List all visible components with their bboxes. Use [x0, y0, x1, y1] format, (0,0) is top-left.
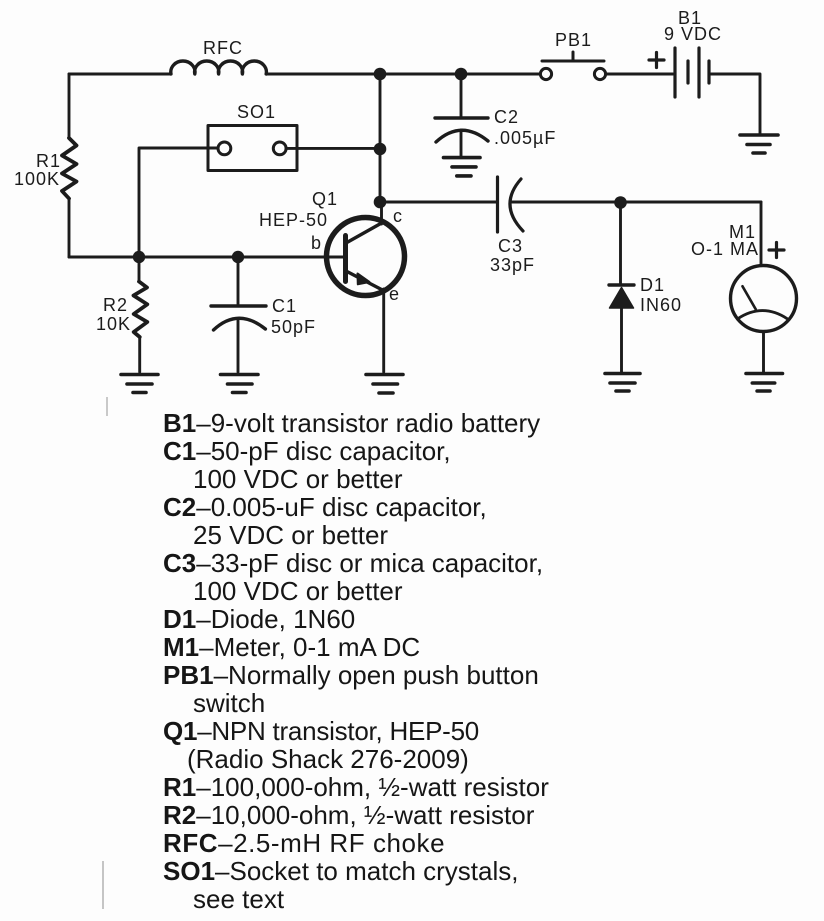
capacitor C1 lead — [237, 257, 240, 304]
capacitor C2 curved plate — [436, 130, 488, 142]
svg-text:100 VDC or better: 100 VDC or better — [193, 464, 403, 494]
wire emitter stub — [382, 289, 385, 372]
wire output rail right — [512, 201, 761, 204]
node bus collector — [374, 196, 387, 209]
transistor Q1 base bar — [343, 236, 348, 282]
socket SO1 pin right — [273, 142, 286, 155]
node D1 junction — [614, 196, 627, 209]
svg-text:PB1–Normally open push button: PB1–Normally open push button — [163, 660, 539, 690]
svg-text:9 VDC: 9 VDC — [664, 24, 722, 44]
transistor Q1 emitter line — [346, 271, 382, 290]
svg-text:M1–Meter, 0-1 mA DC: M1–Meter, 0-1 mA DC — [163, 632, 420, 662]
wire top rail right — [266, 73, 540, 76]
svg-text:50pF: 50pF — [271, 317, 316, 337]
pushbutton PB1 actuator bar — [542, 60, 604, 63]
svg-text:R2: R2 — [103, 295, 128, 315]
svg-text:C3: C3 — [498, 236, 523, 256]
ground M1 — [746, 374, 783, 392]
meter M1 scale arc — [738, 311, 788, 319]
svg-text:see text: see text — [193, 884, 285, 914]
svg-text:b: b — [311, 233, 322, 253]
svg-text:R2–10,000-ohm, ½-watt resistor: R2–10,000-ohm, ½-watt resistor — [163, 800, 535, 830]
svg-text:SO1: SO1 — [237, 102, 276, 122]
wire collector bus — [379, 74, 382, 202]
capacitor C1 top plate — [211, 304, 266, 307]
svg-text:SO1–Socket to match crystals,: SO1–Socket to match crystals, — [163, 856, 518, 886]
plus sign battery — [649, 53, 664, 68]
pushbutton PB1 stem — [572, 52, 575, 61]
pushbutton PB1 contact right — [594, 68, 605, 79]
ground D1 — [605, 374, 640, 392]
ground C1 — [221, 375, 259, 393]
svg-text:O-1 MA: O-1 MA — [691, 239, 759, 259]
svg-text:100K: 100K — [14, 169, 60, 189]
svg-text:D1: D1 — [640, 275, 665, 295]
resistor R2 lead top — [138, 257, 141, 282]
ground R2 — [121, 375, 158, 393]
battery B1 plate long 1 — [673, 48, 676, 97]
diode D1 triangle — [610, 288, 634, 309]
battery B1 plate short 1 — [686, 61, 689, 83]
diode D1 cathode bar — [609, 283, 634, 286]
svg-text:switch: switch — [193, 688, 265, 718]
wire meter to ground — [762, 332, 765, 373]
node junction C1 — [232, 251, 244, 263]
node bus SO1 — [374, 143, 387, 156]
diode D1 lead top — [619, 202, 622, 285]
node bus top — [374, 68, 387, 81]
svg-text:C2–0.005-uF disc capacitor,: C2–0.005-uF disc capacitor, — [163, 492, 487, 522]
wire output rail left — [380, 201, 497, 204]
wire meter branch — [760, 202, 763, 265]
wire base rail — [69, 256, 345, 259]
wire SO1 left to junction — [139, 148, 218, 257]
wire battery to ground — [711, 74, 760, 135]
pushbutton PB1 contact left — [540, 68, 551, 79]
svg-text:10K: 10K — [96, 314, 131, 334]
transistor Q1 collector line — [346, 223, 383, 244]
node junction R2 — [133, 251, 145, 263]
capacitor C2 top plate — [435, 116, 488, 119]
svg-text:C1–50-pF disc capacitor,: C1–50-pF disc capacitor, — [163, 436, 451, 466]
svg-text:.005µF: .005µF — [494, 128, 556, 148]
svg-text:RFC: RFC — [203, 38, 243, 58]
parts list — [163, 408, 549, 914]
ground B1 — [740, 135, 778, 153]
transistor Q1 emitter arrow — [358, 274, 370, 285]
socket SO1 box — [208, 126, 297, 171]
svg-text:Q1–NPN transistor, HEP-50: Q1–NPN transistor, HEP-50 — [163, 716, 479, 746]
svg-text:(Radio Shack 276-2009): (Radio Shack 276-2009) — [187, 744, 469, 774]
svg-text:PB1: PB1 — [555, 30, 592, 50]
diode D1 lead bottom — [620, 308, 623, 372]
capacitor C2 stem — [460, 130, 463, 158]
ground C2 — [444, 158, 481, 176]
svg-text:R1–100,000-ohm, ½-watt resisto: R1–100,000-ohm, ½-watt resistor — [163, 772, 549, 802]
svg-text:33pF: 33pF — [490, 255, 535, 275]
svg-text:e: e — [389, 284, 400, 304]
svg-text:25 VDC or better: 25 VDC or better — [193, 520, 388, 550]
socket SO1 pin left — [218, 142, 231, 155]
resistor R1 lead top — [68, 74, 71, 138]
inductor RFC coil — [171, 61, 267, 74]
plus sign meter — [769, 243, 784, 258]
resistor R2 lead bottom — [138, 337, 141, 372]
ground Q1 emitter — [366, 375, 403, 394]
svg-text:D1–Diode, 1N60: D1–Diode, 1N60 — [163, 604, 355, 634]
svg-text:C1: C1 — [272, 296, 297, 316]
svg-text:Q1: Q1 — [312, 189, 338, 209]
svg-text:C2: C2 — [494, 107, 519, 127]
meter M1 needle — [743, 286, 756, 309]
resistor R1 lead bottom — [68, 199, 71, 258]
svg-text:C3–33-pF disc or mica capacito: C3–33-pF disc or mica capacitor, — [163, 548, 543, 578]
svg-text:R1: R1 — [36, 151, 61, 171]
scan artifact line top left of list — [106, 397, 108, 416]
capacitor C2 lead — [460, 74, 463, 118]
wire PB1 to battery — [606, 73, 673, 76]
svg-text:c: c — [393, 206, 403, 226]
wire SO1 right to bus — [286, 147, 380, 150]
resistor R2 zigzag — [134, 282, 148, 338]
svg-text:100 VDC or better: 100 VDC or better — [193, 576, 403, 606]
scan artifact line bottom left — [102, 861, 104, 909]
capacitor C3 flat plate — [496, 177, 499, 232]
node C2 top — [455, 68, 468, 81]
svg-text:B1–9-volt transistor radio bat: B1–9-volt transistor radio battery — [163, 408, 540, 438]
battery B1 plate short 2 — [707, 61, 710, 83]
resistor R1 zigzag — [62, 138, 77, 199]
battery B1 plate long 2 — [697, 48, 700, 97]
wire collector stub — [380, 202, 383, 224]
capacitor C1 curved plate — [214, 318, 266, 330]
meter M1 circle — [731, 266, 797, 332]
svg-text:RFC–2.5-mH RF choke: RFC–2.5-mH RF choke — [163, 828, 445, 858]
svg-text:IN60: IN60 — [640, 295, 682, 315]
wire top rail left — [69, 73, 171, 76]
capacitor C3 curved plate — [510, 179, 523, 231]
capacitor C1 stem — [237, 319, 240, 372]
svg-text:HEP-50: HEP-50 — [259, 210, 328, 230]
transistor Q1 circle — [327, 218, 405, 296]
